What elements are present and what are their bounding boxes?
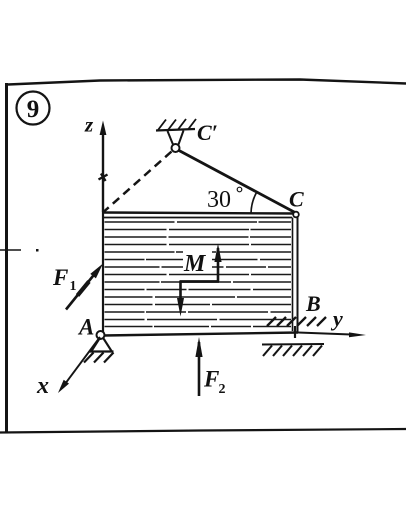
- y axis: [298, 332, 366, 337]
- label M: [183, 247, 212, 273]
- 30 degree angle arc: [251, 193, 257, 214]
- svg-text:y: y: [330, 306, 343, 331]
- B corner post: [294, 326, 296, 338]
- svg-text:30: 30: [207, 187, 231, 213]
- ground line under B: [262, 343, 324, 346]
- svg-text:x: x: [36, 373, 49, 399]
- cable C' to C: [179, 151, 295, 213]
- pin support at A: [90, 339, 114, 352]
- moment M couple symbol: [177, 244, 222, 317]
- svg-text:C′: C′: [197, 120, 218, 145]
- force F2 arrow: [195, 337, 202, 396]
- svg-text:M: M: [183, 251, 207, 277]
- force F1 arrow: [66, 264, 103, 310]
- svg-text:F: F: [52, 265, 68, 290]
- svg-text:C: C: [289, 187, 304, 212]
- plate (hatched rectangle): [103, 212, 298, 336]
- tick mark on z axis: [99, 174, 108, 182]
- dashed tie line C' to top-left corner: [104, 152, 172, 212]
- hatching under A support: [84, 353, 114, 363]
- svg-text:9: 9: [27, 96, 40, 123]
- svg-text:z: z: [84, 113, 94, 137]
- svg-text:B: B: [305, 291, 321, 316]
- pin circle at C': [172, 144, 180, 152]
- roller hatching above y axis at B: [267, 317, 326, 326]
- svg-text:2: 2: [219, 382, 226, 397]
- plate hatch lines: [105, 222, 292, 327]
- svg-text:F: F: [203, 367, 219, 392]
- node C corner pin: [293, 212, 299, 218]
- z axis: [100, 121, 107, 213]
- svg-text:A: A: [77, 315, 94, 340]
- svg-text:1: 1: [70, 279, 77, 294]
- problem number badge 9: [17, 92, 50, 125]
- x axis: [58, 337, 100, 393]
- support at C' (hanger with hatching): [156, 119, 196, 145]
- ground hatching under B: [263, 346, 322, 357]
